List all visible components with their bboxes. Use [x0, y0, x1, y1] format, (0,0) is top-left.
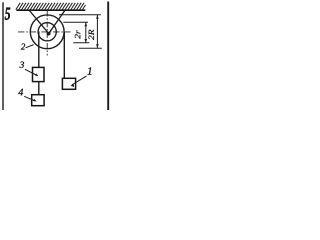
- left rope: [38, 32, 40, 67]
- leader for label 3: [25, 69, 37, 75]
- bracket right leg: [49, 10, 65, 33]
- pulley big step: [30, 15, 64, 49]
- pulley hub: [47, 32, 51, 36]
- extension line small bottom: [73, 42, 89, 44]
- rope between 3 and 4: [38, 82, 40, 95]
- weight block 4: [32, 95, 44, 106]
- left page rule: [2, 2, 4, 110]
- pulley small step: [38, 23, 56, 41]
- label 2: [21, 44, 25, 50]
- horizontal centerline: [18, 31, 71, 33]
- dimension line 2r: [85, 22, 87, 43]
- bracket left leg: [29, 11, 48, 34]
- label 3: [20, 62, 24, 68]
- right rope: [63, 32, 65, 78]
- dimension line 2R: [96, 15, 98, 49]
- extension line big bottom: [79, 47, 102, 49]
- leader for label 4: [24, 96, 35, 101]
- leader for label 2: [26, 45, 34, 48]
- dimension text 2R: [89, 30, 94, 40]
- ceiling line: [16, 9, 85, 11]
- extension line big top: [59, 14, 101, 16]
- vertical centerline: [46, 11, 48, 56]
- label 1: [87, 67, 91, 74]
- right page rule: [107, 2, 109, 111]
- label 4: [18, 89, 23, 96]
- extension line small top: [63, 21, 88, 23]
- leader for label 1: [72, 76, 87, 85]
- weight block 1: [62, 78, 75, 89]
- weight block 3: [33, 67, 45, 81]
- figure number 5: [5, 8, 10, 20]
- dimension text 2r: [75, 30, 80, 39]
- ceiling hatching: [16, 3, 86, 10]
